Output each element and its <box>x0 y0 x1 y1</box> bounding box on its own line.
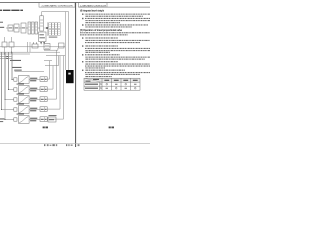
svg-text:2-3 MECHATRO CONTROLLER: 2-3 MECHATRO CONTROLLER <box>42 4 74 7</box>
svg-text:(4) Integrated travel straight: (4) Integrated travel straight <box>80 9 104 12</box>
svg-text:(5) Operation of travel propor: (5) Operation of travel proportional val… <box>80 29 123 32</box>
